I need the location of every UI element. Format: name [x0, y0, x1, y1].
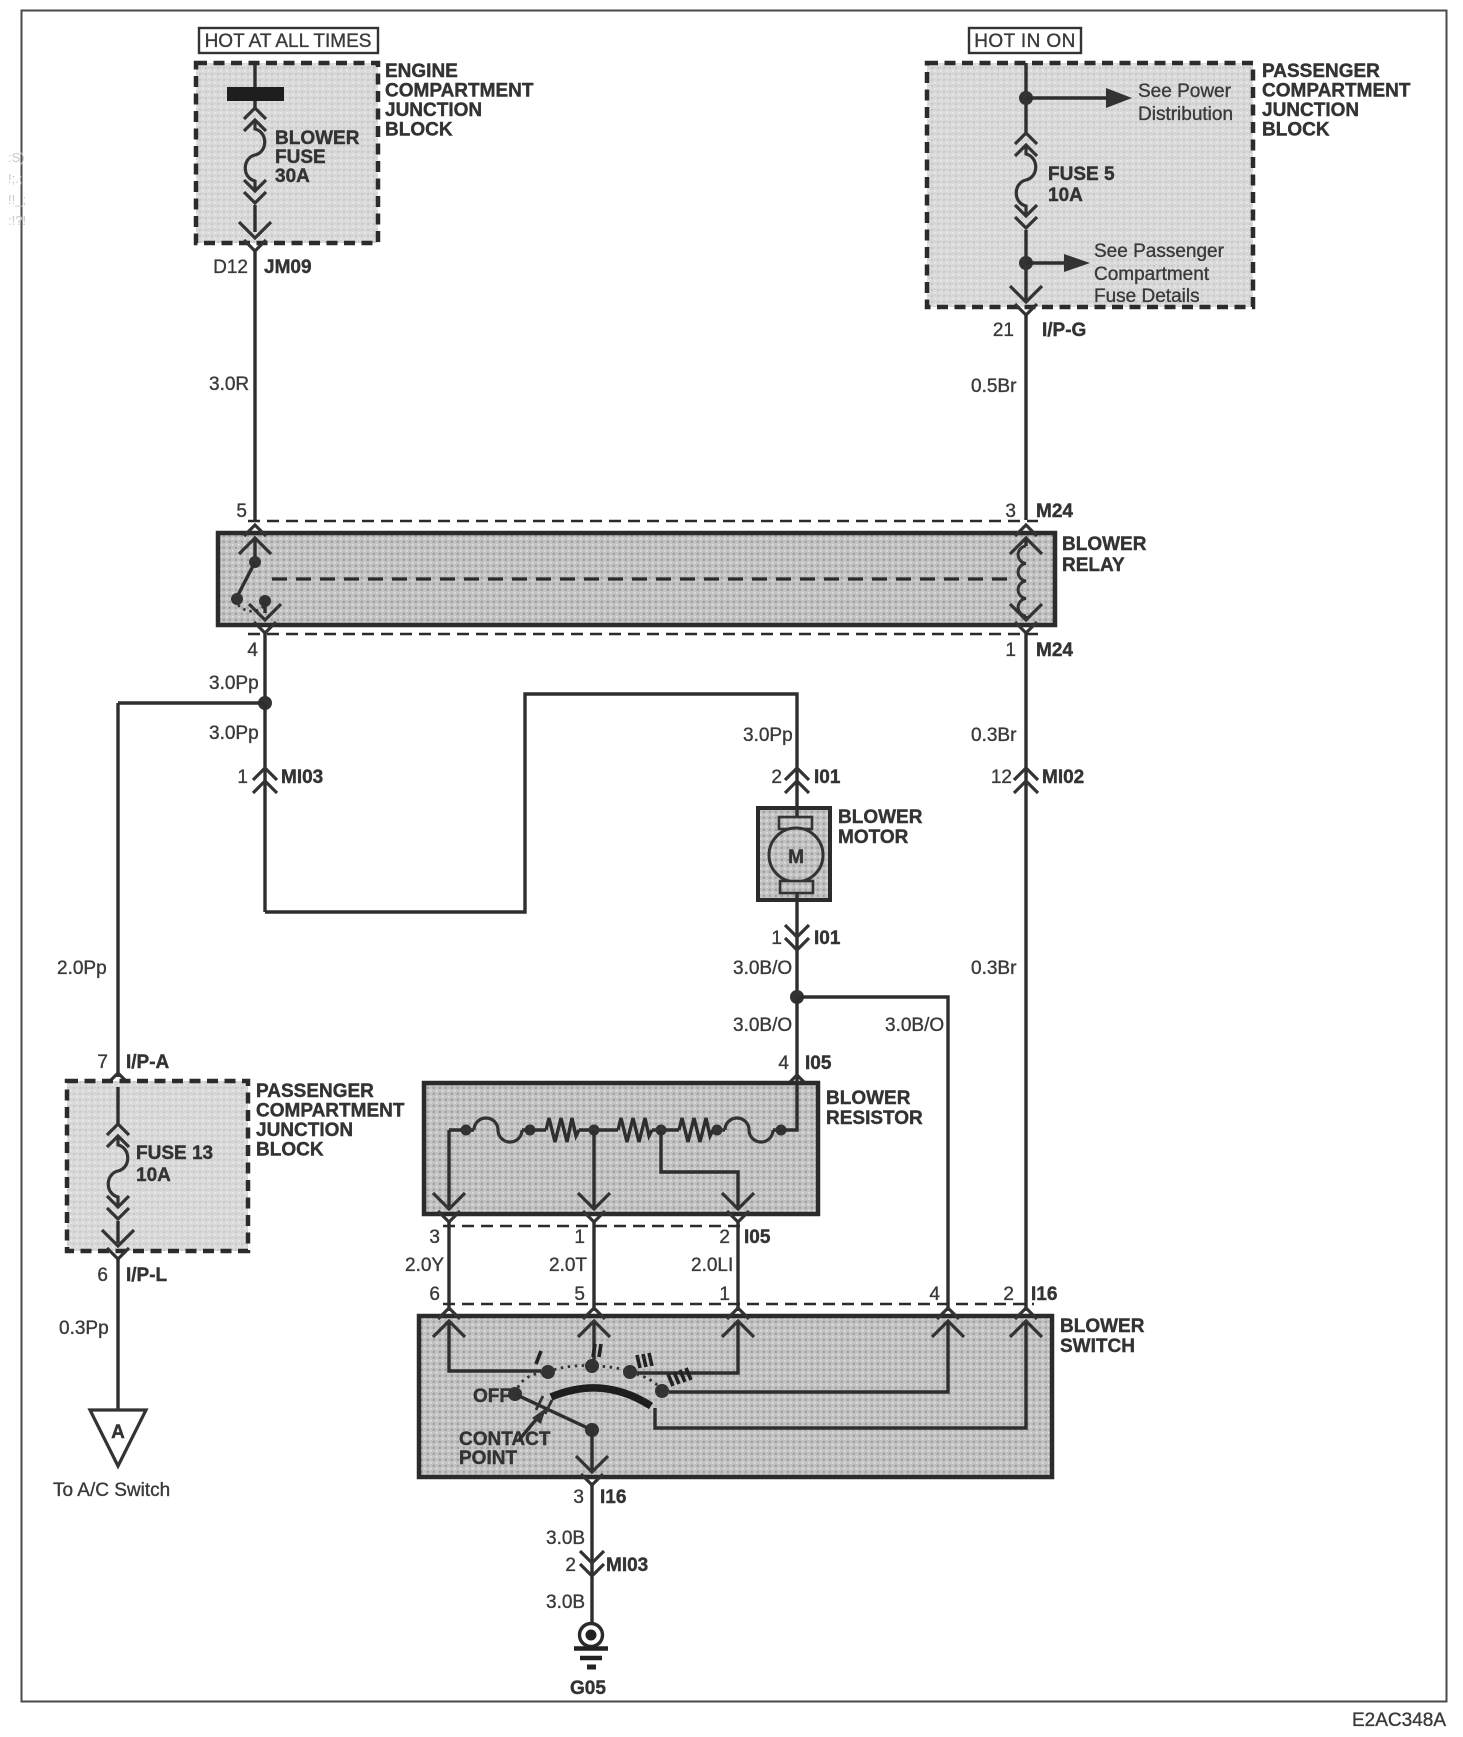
- svg-text:CONTACT: CONTACT: [459, 1429, 551, 1450]
- connector 4 I05 chevrons at resistor entry: [781, 1075, 813, 1104]
- svg-text:3.0B/O: 3.0B/O: [733, 1015, 792, 1036]
- pin 1 connector chevrons: [1010, 604, 1042, 633]
- svg-text:I16: I16: [600, 1487, 626, 1508]
- relay connector dashed line (bottom): [248, 633, 1038, 636]
- svg-text:BLOCK: BLOCK: [256, 1140, 324, 1161]
- wire resistor pin3 to switch pin6: [447, 1222, 450, 1311]
- node: power distribution tap: [1019, 91, 1033, 105]
- thermal coil hump 2: [725, 1118, 773, 1142]
- svg-text:MOTOR: MOTOR: [838, 827, 909, 848]
- wire I/P-L down to A: [116, 1259, 119, 1410]
- svg-text:M24: M24: [1036, 640, 1073, 661]
- pin 2 connector chevrons: [1010, 1308, 1042, 1337]
- wire junction down to I/P-A: [116, 703, 119, 1077]
- wiper thick arc: [551, 1388, 651, 1406]
- svg-text:7: 7: [97, 1052, 108, 1073]
- svg-text:2: 2: [565, 1555, 576, 1576]
- svg-text:3.0Pp: 3.0Pp: [743, 725, 793, 746]
- svg-text:JUNCTION: JUNCTION: [385, 100, 482, 121]
- resistor connector dashed line: [443, 1225, 747, 1228]
- svg-text:0.3Br: 0.3Br: [971, 725, 1017, 746]
- pin2 tap riser: [661, 1130, 738, 1210]
- svg-text:COMPARTMENT: COMPARTMENT: [385, 81, 534, 102]
- node: motor ground branch junction: [790, 990, 804, 1004]
- svg-text:MI03: MI03: [281, 767, 323, 788]
- svg-text:3: 3: [1005, 501, 1016, 522]
- svg-text:2.0LI: 2.0LI: [691, 1255, 733, 1276]
- svg-text:2.0Pp: 2.0Pp: [57, 958, 107, 979]
- connector I/P-G chevrons at block exit: [1010, 286, 1042, 315]
- wire fuse to connector: [253, 205, 256, 232]
- svg-text:Compartment: Compartment: [1094, 264, 1210, 285]
- svg-text:0.3Br: 0.3Br: [971, 958, 1017, 979]
- svg-text:3.0B: 3.0B: [546, 1592, 585, 1613]
- wire junction to left branch: [118, 701, 265, 704]
- resistor body: [424, 1083, 818, 1214]
- svg-text:M24: M24: [1036, 501, 1073, 522]
- svg-text:3.0Pp: 3.0Pp: [209, 673, 259, 694]
- pin 3 exit chevrons: [433, 1193, 465, 1222]
- relay switch contact: wire pin5 to contact: [253, 540, 256, 562]
- svg-text:BLOWER: BLOWER: [838, 807, 923, 828]
- position tick IIII: [668, 1368, 691, 1386]
- wiper arm pivot to OFF contact: [517, 1395, 592, 1430]
- svg-text::S): :S): [8, 150, 25, 165]
- connector 12 MI02 chevrons: [1014, 768, 1038, 793]
- svg-text:BLOWER: BLOWER: [1060, 1316, 1145, 1337]
- connector I/P-L chevrons at block exit: [102, 1230, 134, 1259]
- svg-text:BLOWER: BLOWER: [1062, 534, 1147, 555]
- node: fuse details tap: [1019, 256, 1033, 270]
- svg-text:I/P-A: I/P-A: [126, 1052, 170, 1073]
- svg-text:FUSE 13: FUSE 13: [136, 1143, 213, 1164]
- pin 2 exit chevrons: [722, 1193, 754, 1222]
- svg-text:30A: 30A: [275, 166, 310, 187]
- svg-text:2.0T: 2.0T: [549, 1255, 587, 1276]
- wire resistor pin2 to switch pin1: [736, 1222, 739, 1311]
- wire fuse 13 to block exit: [116, 1221, 119, 1243]
- svg-text:4: 4: [778, 1053, 789, 1074]
- pin 3 connector chevrons: [1010, 525, 1042, 554]
- blower fuse 30A symbol: [244, 108, 266, 203]
- contact I: [541, 1365, 555, 1379]
- svg-text:POINT: POINT: [459, 1448, 517, 1469]
- engine compartment junction block (dashed box): [196, 63, 378, 243]
- svg-text:I/P-G: I/P-G: [1042, 320, 1086, 341]
- svg-text:!!_;: !!_;: [8, 192, 26, 207]
- connector 2 MI03 chevrons: [580, 1551, 604, 1576]
- blower motor M1: [758, 808, 830, 900]
- pin 3 exit chevrons: [576, 1456, 608, 1485]
- svg-text::!?!: :!?!: [8, 213, 26, 228]
- svg-text:G05: G05: [570, 1678, 606, 1699]
- connector 1 MI03 chevrons: [253, 768, 277, 793]
- wire JM09 down to relay pin 5: [253, 251, 256, 520]
- wiper arc end to pin 2 wire: [655, 1323, 1026, 1428]
- wire to pin1 node: [579, 1128, 618, 1131]
- svg-text:1: 1: [1005, 640, 1016, 661]
- svg-text:MI03: MI03: [606, 1555, 648, 1576]
- svg-text:0.3Pp: 0.3Pp: [59, 1318, 109, 1339]
- svg-text:21: 21: [993, 320, 1014, 341]
- position tick II: [593, 1344, 601, 1357]
- svg-text:D12: D12: [213, 257, 248, 278]
- connector 1 I01 chevrons (below motor): [785, 925, 809, 950]
- label box HOT AT ALL TIMES: [199, 28, 378, 53]
- wire bus to fuse: [253, 101, 256, 110]
- svg-text:5: 5: [236, 501, 247, 522]
- pin 5 connector chevrons: [578, 1308, 610, 1337]
- position tick I: [536, 1351, 541, 1364]
- svg-text:1: 1: [574, 1227, 585, 1248]
- dotted selector arc through contacts: [515, 1366, 662, 1394]
- svg-text:To A/C Switch: To A/C Switch: [53, 1480, 170, 1501]
- pivot contact point: [585, 1423, 599, 1437]
- svg-text:2: 2: [1003, 1284, 1014, 1305]
- svg-text:3.0R: 3.0R: [209, 374, 249, 395]
- wire into junction block: [1024, 63, 1027, 133]
- contact II: [585, 1359, 599, 1373]
- arrow to see passenger compartment fuse details: [1026, 261, 1066, 264]
- svg-text:Distribution: Distribution: [1138, 104, 1233, 125]
- svg-text:6: 6: [429, 1284, 440, 1305]
- wire to pin4 entry: [773, 1085, 797, 1130]
- wire: [652, 1128, 679, 1131]
- wire junction down to resistor: [795, 997, 798, 1085]
- svg-text:JUNCTION: JUNCTION: [256, 1120, 353, 1141]
- pin 4 connector chevrons: [249, 604, 281, 633]
- wire motor to I01: [795, 893, 798, 997]
- wire resistor pin1 to switch pin5: [592, 1222, 595, 1311]
- svg-text:2: 2: [771, 767, 782, 788]
- svg-text:See Passenger: See Passenger: [1094, 241, 1225, 262]
- svg-text:10A: 10A: [1048, 185, 1083, 206]
- svg-text:FUSE: FUSE: [275, 147, 326, 168]
- contact OFF: [508, 1387, 522, 1401]
- arrow from label to contact point: [519, 1416, 539, 1440]
- svg-text:OFF: OFF: [473, 1386, 511, 1407]
- svg-text:3: 3: [429, 1227, 440, 1248]
- wire fuse to fuse-details tap: [1024, 230, 1027, 300]
- svg-text:3.0Pp: 3.0Pp: [209, 723, 259, 744]
- resistor element 2: [618, 1118, 652, 1142]
- wire junction down to MI03: [263, 703, 266, 912]
- svg-text:3.0B: 3.0B: [546, 1528, 585, 1549]
- svg-text:I05: I05: [805, 1053, 832, 1074]
- switch connector dashed line: [443, 1303, 1034, 1306]
- contact III: [623, 1365, 637, 1379]
- svg-text:4: 4: [247, 640, 258, 661]
- relay connector dashed line (top): [248, 520, 1038, 523]
- contact IIII: [655, 1384, 669, 1398]
- ground G05 symbol: [580, 1624, 603, 1647]
- svg-text:1: 1: [771, 928, 782, 949]
- connector JM09 chevrons at block exit: [239, 222, 271, 251]
- off-page triangle A: [90, 1410, 146, 1466]
- svg-text:COMPARTMENT: COMPARTMENT: [1262, 81, 1411, 102]
- svg-text:3.0B/O: 3.0B/O: [885, 1015, 944, 1036]
- svg-text:RELAY: RELAY: [1062, 555, 1125, 576]
- svg-text:FUSE 5: FUSE 5: [1048, 164, 1115, 185]
- svg-text:JM09: JM09: [264, 257, 312, 278]
- wire: [522, 1128, 546, 1131]
- svg-text:RESISTOR: RESISTOR: [826, 1108, 923, 1129]
- svg-text:BLOWER: BLOWER: [275, 128, 360, 149]
- wire branch to blower switch pin 4: [797, 997, 948, 1311]
- pin 1 exit chevrons: [578, 1193, 610, 1222]
- svg-text:HOT IN ON: HOT IN ON: [974, 31, 1075, 52]
- wire switch pin3 down: [590, 1485, 593, 1624]
- svg-text:See Power: See Power: [1138, 81, 1232, 102]
- relay switch arm: [238, 562, 255, 595]
- wire into junction block: [253, 63, 256, 90]
- svg-text:0.5Br: 0.5Br: [971, 376, 1017, 397]
- svg-text:ENGINE: ENGINE: [385, 61, 458, 82]
- pin 1 connector chevrons: [722, 1308, 754, 1337]
- pin 4 connector chevrons: [932, 1308, 964, 1337]
- pin 6 internal wire to contact I: [449, 1323, 541, 1371]
- svg-text:I01: I01: [814, 928, 841, 949]
- svg-text:2: 2: [719, 1227, 730, 1248]
- internal chain: pin3 riser: [447, 1130, 450, 1210]
- relay body: [218, 533, 1055, 625]
- svg-text:COMPARTMENT: COMPARTMENT: [256, 1101, 405, 1122]
- svg-text:SWITCH: SWITCH: [1060, 1336, 1135, 1357]
- position tick III: [637, 1353, 652, 1368]
- wire I/P-G down to relay pin 3: [1024, 315, 1027, 520]
- svg-text:6: 6: [97, 1265, 108, 1286]
- relay coil: [1018, 546, 1026, 616]
- svg-text:10A: 10A: [136, 1165, 171, 1186]
- svg-text:1: 1: [719, 1284, 730, 1305]
- fuse 13 10A symbol: [107, 1124, 129, 1219]
- svg-text:A: A: [111, 1422, 125, 1443]
- svg-text:3.0B/O: 3.0B/O: [733, 958, 792, 979]
- svg-text:1: 1: [237, 767, 248, 788]
- wire contact to pin 4: [263, 601, 266, 613]
- connector 2 I01 chevrons: [785, 768, 809, 793]
- node: pin4 branch junction: [258, 696, 272, 710]
- svg-text:PASSENGER: PASSENGER: [1262, 61, 1380, 82]
- svg-text:E2AC348A: E2AC348A: [1352, 1710, 1446, 1731]
- pin 6 connector chevrons: [433, 1308, 465, 1337]
- relay internal dashed line: [272, 577, 1008, 580]
- fuse 5 10A symbol: [1015, 133, 1037, 228]
- thermal coil hump 1: [474, 1118, 522, 1142]
- scan artifact marks left margin: [8, 150, 26, 228]
- svg-text:4: 4: [929, 1284, 940, 1305]
- chain wire: [449, 1128, 474, 1131]
- right rail: relay pin1 down to MI02: [1024, 633, 1027, 1311]
- pin1 riser: [592, 1130, 595, 1210]
- svg-text:PASSENGER: PASSENGER: [256, 1081, 374, 1102]
- pin 1 internal wire to contact III: [637, 1323, 738, 1373]
- label box HOT IN ON: [969, 28, 1081, 53]
- passenger compartment junction block (dashed box, fuse 13): [67, 1081, 248, 1251]
- wire MI03 detour to blower motor: [265, 694, 797, 912]
- svg-text:BLOCK: BLOCK: [1262, 120, 1330, 141]
- svg-text:MI02: MI02: [1042, 767, 1084, 788]
- svg-text:12: 12: [991, 767, 1012, 788]
- pin 4 internal wire to contact IIII: [669, 1323, 948, 1392]
- svg-text:5: 5: [574, 1284, 585, 1305]
- wire: [713, 1128, 725, 1131]
- contact point tick on arm: [536, 1396, 552, 1414]
- svg-text:BLOCK: BLOCK: [385, 120, 453, 141]
- wire relay pin4 down to junction: [263, 633, 266, 703]
- svg-text:I/P-L: I/P-L: [126, 1265, 168, 1286]
- svg-text:HOT AT ALL TIMES: HOT AT ALL TIMES: [205, 31, 372, 52]
- arrow to see power distribution: [1026, 96, 1108, 99]
- connector 7 I/P-A chevrons at block entry: [102, 1073, 134, 1102]
- switch body: [419, 1316, 1052, 1477]
- resistor element 3: [679, 1118, 713, 1142]
- svg-text:I16: I16: [1031, 1284, 1057, 1305]
- svg-text:BLOWER: BLOWER: [826, 1088, 911, 1109]
- resistor element 1: [546, 1118, 579, 1142]
- bus bar: [227, 87, 284, 101]
- svg-text:I01: I01: [814, 767, 841, 788]
- svg-text:JUNCTION: JUNCTION: [1262, 100, 1359, 121]
- svg-text:Fuse Details: Fuse Details: [1094, 286, 1200, 307]
- wire pivot to pin 3: [590, 1430, 593, 1472]
- svg-text:I05: I05: [744, 1227, 771, 1248]
- svg-text:2.0Y: 2.0Y: [405, 1255, 444, 1276]
- svg-text:!;.;: !;.;: [8, 171, 22, 186]
- svg-text:3: 3: [573, 1487, 584, 1508]
- relay switch thrown-position dotted arc: [238, 605, 264, 611]
- pin 5 internal wire to contact II: [592, 1323, 595, 1360]
- passenger compartment junction block (dashed box): [927, 63, 1253, 307]
- svg-text:M: M: [788, 847, 804, 868]
- pin 5 connector chevrons: [239, 525, 271, 554]
- wire into fuse 13: [116, 1087, 119, 1126]
